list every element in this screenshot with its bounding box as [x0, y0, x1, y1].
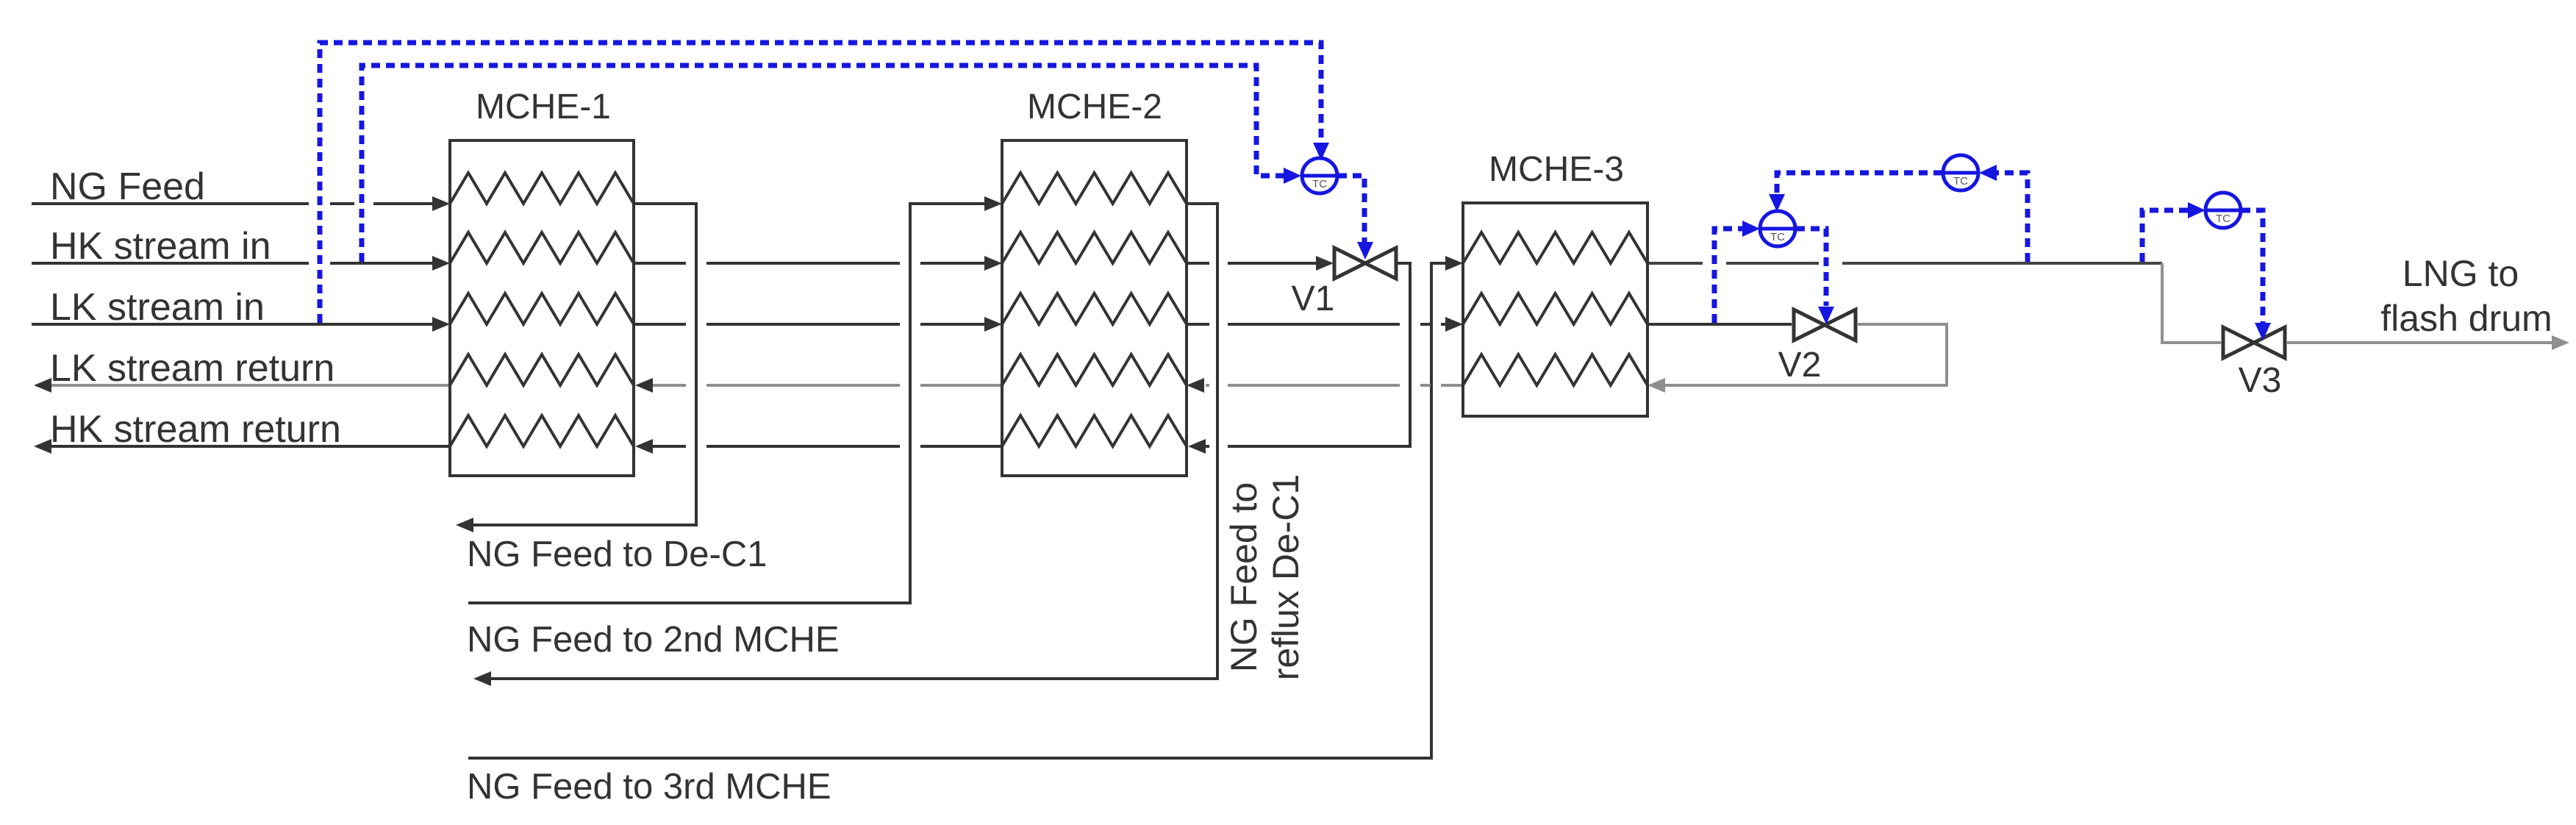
svg-text:NG Feed to 3rd MCHE: NG Feed to 3rd MCHE	[467, 767, 831, 807]
svg-text:LNG to: LNG to	[2403, 253, 2519, 294]
svg-text:MCHE-2: MCHE-2	[1027, 87, 1162, 126]
svg-text:HK stream in: HK stream in	[50, 225, 271, 268]
svg-text:V2: V2	[1778, 346, 1822, 385]
svg-text:MCHE-1: MCHE-1	[476, 87, 611, 126]
svg-text:MCHE-3: MCHE-3	[1489, 150, 1624, 189]
svg-text:TC: TC	[2216, 213, 2230, 225]
svg-text:LK stream return: LK stream return	[50, 347, 334, 390]
svg-text:reflux De-C1: reflux De-C1	[1265, 474, 1306, 681]
svg-text:NG Feed: NG Feed	[50, 165, 205, 208]
svg-text:LK stream in: LK stream in	[50, 286, 265, 329]
svg-text:flash drum: flash drum	[2380, 298, 2552, 339]
svg-text:V1: V1	[1292, 279, 1335, 318]
svg-text:TC: TC	[1770, 231, 1785, 243]
svg-text:TC: TC	[1953, 175, 1968, 187]
svg-text:TC: TC	[1312, 178, 1327, 190]
svg-text:HK stream return: HK stream return	[50, 408, 341, 451]
svg-text:NG Feed to 2nd MCHE: NG Feed to 2nd MCHE	[467, 620, 840, 660]
svg-text:NG Feed to De-C1: NG Feed to De-C1	[467, 535, 768, 574]
svg-text:V3: V3	[2239, 361, 2282, 400]
svg-text:NG Feed to: NG Feed to	[1223, 482, 1264, 672]
